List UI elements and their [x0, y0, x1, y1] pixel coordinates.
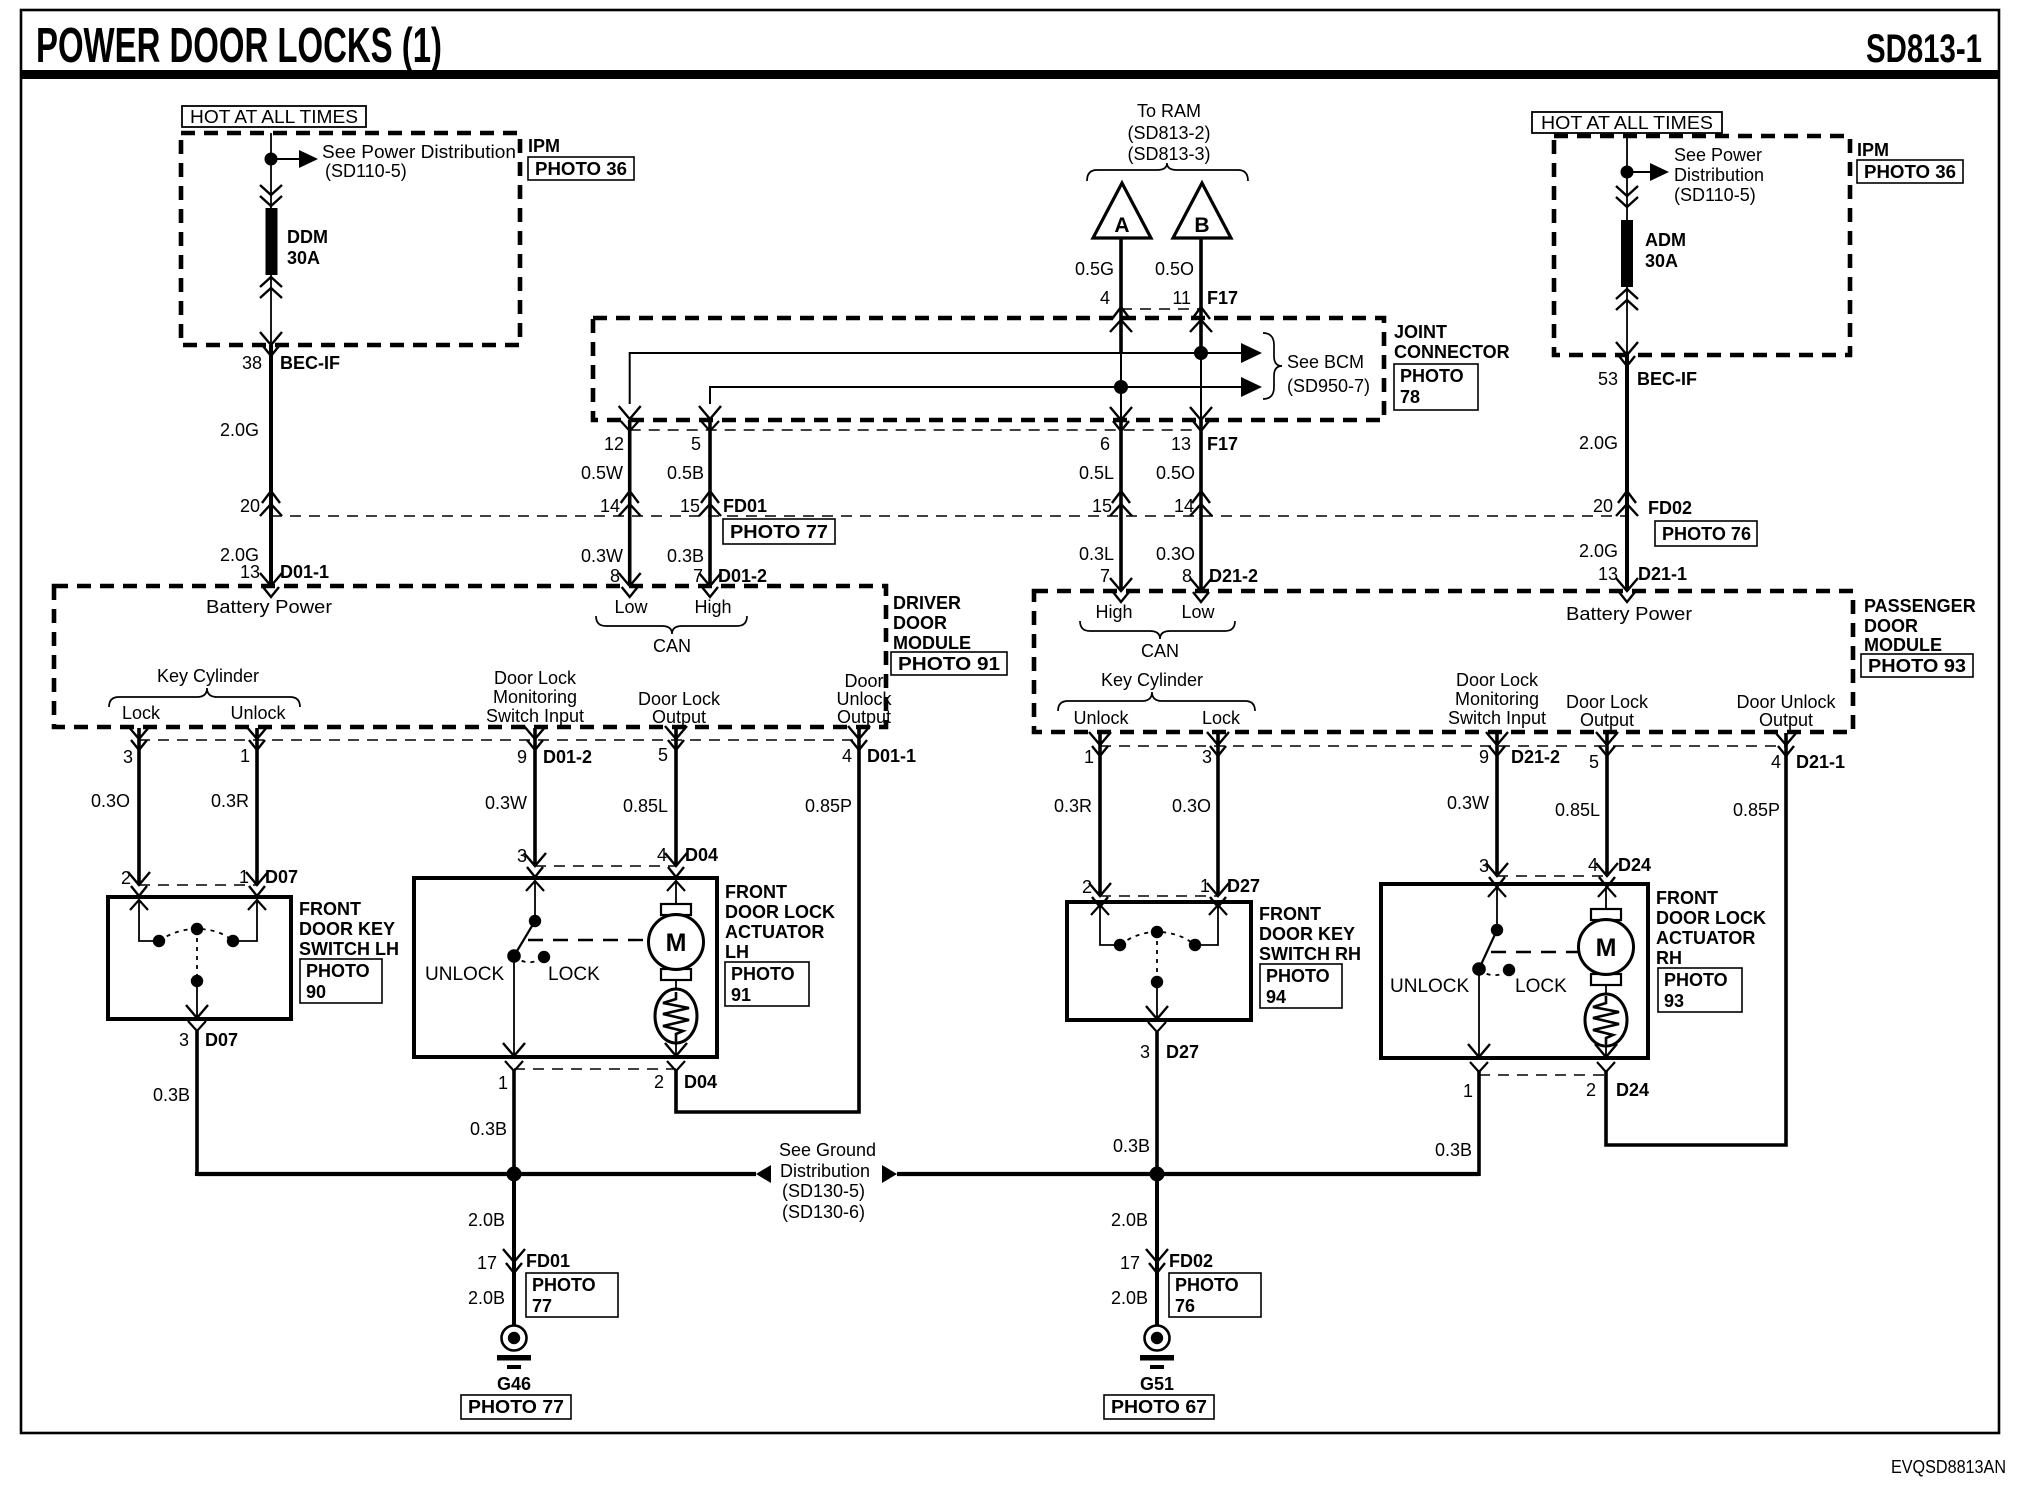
svg-text:D01-1: D01-1 — [280, 562, 329, 582]
svg-text:LOCK: LOCK — [1515, 976, 1567, 997]
svg-text:0.3W: 0.3W — [1447, 793, 1489, 813]
brace CAN (driver) — [596, 616, 747, 634]
svg-text:PHOTO 36: PHOTO 36 — [1864, 162, 1956, 182]
key switch RH: pin 1 lead — [1195, 905, 1218, 945]
label PHOTO 36 (right IPM) — [1857, 160, 1963, 183]
svg-text:Lock: Lock — [1202, 708, 1241, 728]
svg-text:POWER DOOR LOCKS (1): POWER DOOR LOCKS (1) — [36, 19, 442, 73]
label DRIVER DOOR MODULE — [893, 593, 971, 653]
actuator RH switch pivot contact — [1491, 924, 1503, 936]
svg-text:RH: RH — [1656, 948, 1682, 968]
svg-text:76: 76 — [1175, 1296, 1195, 1316]
arrow from thermal element to box edge (RH) — [1605, 1044, 1607, 1056]
label PHOTO 76 (FD02) — [1655, 521, 1757, 546]
label PHOTO 90 — [300, 959, 382, 1003]
svg-text:BEC-IF: BEC-IF — [280, 353, 340, 373]
chevron below joint box (pin 6) — [1110, 407, 1132, 431]
svg-text:SD813-1: SD813-1 — [1866, 27, 1982, 71]
svg-text:Low: Low — [1181, 602, 1215, 622]
connector line D04 out (dashed) — [514, 1068, 676, 1070]
svg-text:Door Lock: Door Lock — [638, 689, 721, 709]
svg-text:11: 11 — [1172, 288, 1191, 308]
svg-text:ACTUATOR: ACTUATOR — [725, 922, 824, 942]
svg-text:See Power Distribution: See Power Distribution — [322, 142, 516, 162]
svg-text:DOOR KEY: DOOR KEY — [299, 919, 395, 939]
svg-text:See Power: See Power — [1674, 145, 1762, 165]
svg-text:A: A — [1114, 214, 1129, 237]
connector chevrons FD02 pin 15 — [1110, 491, 1132, 516]
driver door module dashed box — [54, 586, 886, 727]
right IPM fuse box: HOT AT ALL TIMES label — [1532, 112, 1722, 133]
chevron inside actuator pin 3 — [526, 881, 544, 891]
svg-text:0.85L: 0.85L — [1555, 800, 1600, 820]
svg-text:0.5O: 0.5O — [1156, 463, 1195, 483]
off-page connector triangle A — [1093, 183, 1151, 238]
svg-text:0.5G: 0.5G — [1075, 259, 1114, 279]
connector chevrons FD01 pin 15 — [699, 491, 721, 516]
exit chevron D04 pin 2 — [667, 1061, 685, 1071]
svg-text:17: 17 — [1120, 1253, 1140, 1273]
svg-text:0.3O: 0.3O — [91, 791, 130, 811]
svg-text:IPM: IPM — [528, 136, 560, 156]
exit chevron passenger module pin 4 — [1775, 732, 1797, 756]
svg-text:0.5L: 0.5L — [1079, 463, 1114, 483]
connector line F17 (pins 4/11) — [1121, 308, 1201, 310]
svg-text:DOOR: DOOR — [893, 613, 947, 633]
connector FD01 pin 17 chevron — [503, 1249, 525, 1273]
svg-text:2.0G: 2.0G — [220, 420, 259, 440]
svg-text:3: 3 — [179, 1030, 189, 1050]
arrow down to FD01 pin 5 — [699, 406, 721, 419]
label Door Lock Monitoring Switch Input (driver) — [486, 668, 584, 726]
connector line D21 pins (dashed) — [1100, 745, 1786, 747]
svg-text:D27: D27 — [1227, 876, 1260, 896]
svg-text:PASSENGER: PASSENGER — [1864, 596, 1976, 616]
svg-text:2: 2 — [1082, 877, 1092, 897]
svg-text:(SD813-2): (SD813-2) — [1127, 123, 1210, 143]
junction node G46 drop — [507, 1167, 522, 1182]
svg-text:3: 3 — [1202, 747, 1212, 767]
svg-text:Monitoring: Monitoring — [493, 687, 577, 707]
svg-text:UNLOCK: UNLOCK — [1390, 976, 1470, 997]
svg-text:0.3R: 0.3R — [211, 791, 249, 811]
motor M (actuator RH) — [1579, 920, 1634, 975]
wire 0.3B (actuator RH pin 1 to ground bus) — [1477, 1070, 1481, 1176]
svg-text:Output: Output — [1759, 710, 1813, 730]
chevron inside actuator RH pin 4 — [1598, 887, 1616, 897]
entry chevron D01-2 pin 7 — [699, 573, 721, 597]
svg-text:D01-1: D01-1 — [867, 746, 916, 766]
wire 0.5G (triangle A down to joint connector) — [1119, 238, 1123, 353]
wire: tap to arrow — [271, 158, 301, 160]
exit chevron D04 pin 1 — [505, 1061, 523, 1071]
svg-text:2.0B: 2.0B — [468, 1210, 505, 1230]
connector FD02 pin 17 chevron — [1146, 1249, 1168, 1273]
connector line D04 in (dashed) — [535, 865, 676, 867]
svg-text:0.3L: 0.3L — [1079, 544, 1114, 564]
svg-text:(SD130-5): (SD130-5) — [782, 1181, 865, 1201]
svg-text:Monitoring: Monitoring — [1455, 689, 1539, 709]
ground bus wire (right segment) — [897, 1172, 1479, 1176]
connector line D01 pins (dashed) — [139, 739, 859, 741]
wire A through joint connector — [1120, 353, 1122, 420]
actuator RH switch feed wire — [1496, 887, 1498, 930]
svg-text:13: 13 — [240, 562, 260, 582]
connector chevrons above fuse DDM — [260, 185, 282, 206]
svg-text:D01-2: D01-2 — [718, 566, 767, 586]
label FRONT DOOR KEY SWITCH LH — [299, 899, 399, 959]
svg-text:CONNECTOR: CONNECTOR — [1394, 342, 1510, 362]
svg-text:2: 2 — [654, 1072, 664, 1092]
svg-text:SWITCH LH: SWITCH LH — [299, 939, 399, 959]
wire: joint connector lower bus to BCM — [710, 387, 1252, 404]
off-page connector triangle B — [1173, 183, 1231, 238]
svg-text:Door Unlock: Door Unlock — [1736, 692, 1836, 712]
connector chevrons below fuse ADM — [1616, 289, 1638, 310]
passenger door module dashed box — [1034, 591, 1853, 732]
connector FD02 pin 20 chevrons — [1616, 491, 1638, 516]
entry chevron D27 pin 2 — [1089, 883, 1111, 907]
label FRONT DOOR KEY SWITCH RH — [1259, 904, 1361, 964]
exit chevron D24 pin 2 — [1597, 1062, 1615, 1072]
svg-text:High: High — [694, 597, 731, 617]
svg-text:ACTUATOR: ACTUATOR — [1656, 928, 1755, 948]
svg-text:1: 1 — [240, 746, 250, 766]
svg-text:Output: Output — [652, 707, 706, 727]
actuator LH switch blade — [514, 921, 535, 956]
svg-text:5: 5 — [1589, 752, 1599, 772]
entry chevron D07 pin 2 — [128, 872, 150, 896]
exit chevron driver module pin 5 — [665, 726, 687, 750]
label PHOTO 91 (actuator LH) — [725, 962, 809, 1006]
svg-text:Unlock: Unlock — [230, 703, 286, 723]
svg-text:78: 78 — [1400, 387, 1420, 407]
actuator LH switch output wire with arrow — [513, 956, 515, 1055]
wire 0.85L (x=676) — [674, 728, 678, 866]
brace Key Cylinder (driver) — [109, 688, 300, 707]
wire: joint connector upper bus to BCM — [630, 353, 1252, 404]
key switch RH common (dotted) — [1156, 932, 1158, 982]
arrow to power distribution (right) — [1650, 163, 1669, 181]
entry chevron D04 pin 4 — [665, 853, 687, 877]
svg-text:PHOTO: PHOTO — [1175, 1275, 1239, 1295]
actuator RH switch blade — [1479, 930, 1497, 969]
motor M terminal (top, RH) — [1591, 909, 1621, 920]
label PASSENGER DOOR MODULE — [1864, 596, 1976, 655]
label Door Lock Output (driver) — [638, 689, 721, 727]
brace Key Cylinder (passenger) — [1058, 692, 1255, 711]
wire 2.0B (G46 drop) — [512, 1174, 516, 1326]
svg-text:D04: D04 — [684, 1072, 717, 1092]
svg-text:1: 1 — [1084, 747, 1094, 767]
label FRONT DOOR LOCK ACTUATOR LH — [725, 882, 835, 962]
svg-text:1: 1 — [1463, 1081, 1473, 1101]
svg-text:LOCK: LOCK — [548, 964, 600, 985]
connector line D24 out (dashed) — [1479, 1074, 1606, 1076]
svg-text:PHOTO: PHOTO — [1664, 970, 1728, 990]
svg-text:0.85L: 0.85L — [623, 796, 668, 816]
connector line (pins 12/5/6/13) — [630, 429, 1201, 431]
connector BEC-IF exit chevron (pin 53) — [1616, 342, 1638, 366]
svg-text:To RAM: To RAM — [1137, 101, 1201, 121]
svg-text:FD02: FD02 — [1648, 498, 1692, 518]
svg-text:2.0G: 2.0G — [1579, 433, 1618, 453]
connector FD01 pin 20 chevrons — [260, 491, 282, 516]
actuator RH switch output wire with arrow — [1478, 969, 1480, 1056]
svg-text:2.0B: 2.0B — [1111, 1210, 1148, 1230]
wire: right IPM feed (vertical, x=1627) — [1626, 136, 1628, 355]
key switch LH contacts — [153, 935, 165, 947]
svg-text:MODULE: MODULE — [1864, 635, 1942, 655]
svg-text:Unlock: Unlock — [1073, 708, 1129, 728]
wire 2.0G (x=1627, BEC-IF to D21-1) — [1625, 355, 1629, 591]
wire 0.3B (x=1157 to ground bus) — [1155, 1032, 1159, 1176]
fuse ADM 30A — [1621, 220, 1633, 287]
svg-text:13: 13 — [1598, 564, 1618, 584]
key switch RH wiper arc (dashed) — [1120, 932, 1195, 945]
entry chevron D27 pin 1 — [1207, 883, 1229, 907]
actuator LH linkage to motor (dashed) — [528, 939, 646, 941]
svg-text:D24: D24 — [1616, 1080, 1649, 1100]
svg-text:FD01: FD01 — [723, 496, 767, 516]
wire 0.3B (x=197 to ground bus) — [195, 1031, 199, 1176]
svg-text:D01-2: D01-2 — [543, 747, 592, 767]
svg-text:FRONT: FRONT — [299, 899, 361, 919]
svg-text:DOOR: DOOR — [1864, 616, 1918, 636]
svg-text:2: 2 — [121, 868, 131, 888]
chevron inside actuator RH pin 3 — [1488, 887, 1506, 897]
svg-text:15: 15 — [1092, 496, 1112, 516]
svg-text:PHOTO 77: PHOTO 77 — [730, 522, 828, 542]
svg-text:DOOR LOCK: DOOR LOCK — [725, 902, 835, 922]
svg-text:(SD950-7): (SD950-7) — [1287, 376, 1370, 396]
wire 0.3R (x=257) — [255, 728, 259, 885]
actuator RH linkage to motor (dashed) — [1491, 951, 1578, 953]
svg-text:2: 2 — [1586, 1080, 1596, 1100]
svg-text:D07: D07 — [205, 1030, 238, 1050]
wire 0.3R (x=1100) — [1098, 733, 1102, 896]
exit chevron driver module pin 4 — [848, 726, 870, 750]
connector chevrons F17 pin 11 — [1190, 307, 1212, 332]
ground bus wire (left segment) — [197, 1172, 756, 1176]
motor M (actuator LH) — [649, 915, 704, 970]
motor M terminal (bottom, RH) — [1591, 974, 1621, 985]
actuator RH contact arc (dotted) — [1479, 969, 1509, 975]
actuator LH switch pivot contact — [529, 915, 541, 927]
svg-text:D21-2: D21-2 — [1209, 566, 1258, 586]
svg-text:30A: 30A — [1645, 251, 1678, 271]
svg-text:HOT AT ALL TIMES: HOT AT ALL TIMES — [1541, 113, 1713, 133]
wire: tap to arrow (right) — [1627, 171, 1652, 173]
wire 0.5L (x=1121 down to passenger module) — [1119, 420, 1123, 591]
svg-text:4: 4 — [842, 746, 852, 766]
svg-text:Output: Output — [1580, 710, 1634, 730]
thermal protector (zigzag in ellipse) — [655, 989, 697, 1043]
wire B through joint connector — [1200, 353, 1202, 420]
thermal protector (zigzag in ellipse, RH) — [1585, 994, 1627, 1046]
svg-text:Switch Input: Switch Input — [1448, 708, 1546, 728]
exit chevron driver module pin 3 (Lock) — [128, 726, 150, 750]
label PHOTO 93 (actuator RH) — [1658, 968, 1742, 1012]
arrow from thermal element to box edge — [675, 1041, 677, 1055]
svg-text:Output: Output — [837, 707, 891, 727]
entry chevron D01-2 pin 8 — [619, 573, 641, 597]
svg-text:6: 6 — [1100, 434, 1110, 454]
svg-text:Battery Power: Battery Power — [206, 597, 332, 617]
svg-text:CAN: CAN — [1141, 641, 1179, 661]
connector D01-1 pin 13 entry chevron — [260, 573, 282, 597]
svg-text:0.5O: 0.5O — [1155, 259, 1194, 279]
chevron inside actuator pin 4 — [667, 881, 685, 891]
svg-text:(SD110-5): (SD110-5) — [1674, 185, 1756, 205]
svg-text:0.3B: 0.3B — [1435, 1140, 1472, 1160]
chevron below joint box (pin 12) — [621, 421, 639, 431]
svg-text:Switch Input: Switch Input — [486, 706, 584, 726]
svg-text:PHOTO 36: PHOTO 36 — [535, 159, 627, 179]
title separator bar — [21, 70, 1999, 79]
actuator LH contact arc (dotted) — [514, 956, 544, 962]
svg-text:F17: F17 — [1207, 288, 1238, 308]
svg-text:B: B — [1194, 214, 1209, 237]
ground G46 — [497, 1326, 531, 1370]
svg-text:0.5B: 0.5B — [667, 463, 704, 483]
label Door Unlock Output (driver) — [836, 671, 892, 727]
svg-text:JOINT: JOINT — [1394, 322, 1447, 342]
key switch LH: pin 1 lead — [233, 900, 257, 941]
chevron below joint box (pin 5) — [701, 421, 719, 431]
entry chevron D24 pin 4 — [1596, 863, 1618, 887]
actuator RH unlock contact — [1472, 962, 1486, 976]
svg-text:D24: D24 — [1618, 855, 1651, 875]
connector line D07 (dashed) — [139, 884, 257, 886]
exit chevron driver module pin 9 — [524, 726, 546, 750]
svg-text:Key Cylinder: Key Cylinder — [1101, 670, 1203, 690]
svg-text:(SD813-3): (SD813-3) — [1127, 144, 1210, 164]
front door lock actuator RH box — [1381, 884, 1648, 1058]
svg-text:D27: D27 — [1166, 1042, 1199, 1062]
wire 0.3O (x=139) — [137, 728, 141, 885]
wire 0.85P (x=859 down and across to actuator pin 2) — [676, 728, 859, 1112]
entry chevron D21-2 pin 8 — [1190, 578, 1212, 602]
svg-text:20: 20 — [240, 496, 260, 516]
chevron inside key switch RH pin 2 — [1091, 905, 1109, 915]
svg-text:0.3B: 0.3B — [470, 1119, 507, 1139]
svg-text:14: 14 — [600, 496, 620, 516]
svg-text:Battery Power: Battery Power — [1566, 604, 1692, 624]
ground bus corner at key switch LH output — [195, 1172, 199, 1176]
chevron inside key switch box pin 1 — [248, 900, 266, 910]
front door lock actuator LH box — [414, 878, 717, 1057]
svg-text:77: 77 — [532, 1296, 552, 1316]
wire 2.0B (G51 drop) — [1155, 1174, 1159, 1326]
svg-text:93: 93 — [1664, 991, 1684, 1011]
entry chevron D21-2 pin 7 — [1110, 578, 1132, 602]
actuator LH lock contact — [538, 951, 550, 963]
svg-text:D04: D04 — [685, 845, 718, 865]
svg-text:0.3O: 0.3O — [1172, 796, 1211, 816]
arrow to power distribution — [299, 150, 318, 168]
svg-text:94: 94 — [1266, 987, 1286, 1007]
svg-text:Distribution: Distribution — [780, 1161, 870, 1181]
svg-text:53: 53 — [1598, 369, 1618, 389]
arrow down to FD01 pin 12 — [619, 406, 641, 419]
label Door Lock Monitoring Switch Input (passenger) — [1448, 670, 1546, 728]
key switch RH: pin 2 lead — [1100, 905, 1120, 945]
wire 0.85L (x=1607) — [1605, 733, 1609, 876]
wire 0.5O (x=1201 down to passenger module) — [1199, 420, 1203, 591]
wire 0.85P (x=1786 down and across to actuator RH pin 2) — [1606, 733, 1786, 1145]
wire motor to thermal element — [675, 980, 677, 990]
svg-text:Key Cylinder: Key Cylinder — [157, 666, 259, 686]
svg-text:ADM: ADM — [1645, 230, 1686, 250]
wire motor to thermal element (RH) — [1605, 985, 1607, 994]
label FRONT DOOR LOCK ACTUATOR RH — [1656, 888, 1766, 968]
svg-text:PHOTO: PHOTO — [1400, 366, 1464, 386]
svg-text:DDM: DDM — [287, 227, 328, 247]
wire 0.3O (x=1218) — [1216, 733, 1220, 896]
chevron inside key switch RH pin 1 — [1209, 905, 1227, 915]
ground G51 — [1140, 1326, 1174, 1370]
svg-text:(SD130-6): (SD130-6) — [782, 1202, 865, 1222]
svg-text:DOOR LOCK: DOOR LOCK — [1656, 908, 1766, 928]
label PHOTO 76 (FD02 bottom) — [1169, 1273, 1261, 1317]
front door key switch LH box — [108, 897, 291, 1019]
svg-text:2.0G: 2.0G — [1579, 541, 1618, 561]
connector chevrons above fuse ADM — [1616, 186, 1638, 207]
svg-text:0.85P: 0.85P — [805, 796, 852, 816]
wire to motor (RH) — [1605, 887, 1607, 909]
wire 0.5B (x=710 down to driver module) — [708, 420, 712, 586]
exit chevron passenger module pin 9 — [1486, 732, 1508, 756]
key switch RH output wire with arrow — [1156, 982, 1158, 1018]
connector chevrons FD01 pin 14 — [619, 491, 641, 516]
svg-text:8: 8 — [610, 566, 620, 586]
svg-text:CAN: CAN — [653, 636, 691, 656]
svg-text:PHOTO: PHOTO — [306, 961, 370, 981]
svg-text:0.3B: 0.3B — [153, 1085, 190, 1105]
actuator LH unlock contact — [507, 949, 521, 963]
connector chevrons FD02 pin 14 — [1190, 491, 1212, 516]
actuator LH switch feed wire — [534, 881, 536, 921]
svg-text:PHOTO: PHOTO — [731, 964, 795, 984]
svg-text:5: 5 — [691, 434, 701, 454]
svg-text:Door Lock: Door Lock — [1456, 670, 1539, 690]
wire 0.5W (x=629.7 down to driver module) — [628, 420, 632, 586]
svg-text:SWITCH RH: SWITCH RH — [1259, 944, 1361, 964]
svg-text:Unlock: Unlock — [836, 689, 892, 709]
svg-text:0.3W: 0.3W — [581, 546, 623, 566]
svg-text:MODULE: MODULE — [893, 633, 971, 653]
junction node G51 drop — [1150, 1167, 1165, 1182]
joint connector dashed box — [593, 318, 1384, 420]
svg-text:9: 9 — [517, 747, 527, 767]
svg-text:2.0B: 2.0B — [468, 1288, 505, 1308]
svg-text:0.3O: 0.3O — [1156, 544, 1195, 564]
svg-text:D21-1: D21-1 — [1638, 564, 1687, 584]
svg-text:8: 8 — [1182, 566, 1192, 586]
svg-text:17: 17 — [477, 1253, 497, 1273]
svg-text:UNLOCK: UNLOCK — [425, 964, 505, 985]
svg-text:M: M — [666, 929, 687, 957]
junction node on wire B (upper bus) — [1194, 346, 1208, 360]
svg-text:5: 5 — [658, 745, 668, 765]
wire: left IPM feed (vertical, x=271) — [270, 133, 272, 345]
svg-text:EVQSD8813AN: EVQSD8813AN — [1891, 1457, 2006, 1477]
svg-text:DOOR KEY: DOOR KEY — [1259, 924, 1355, 944]
label PHOTO 36 (left IPM) — [528, 157, 634, 180]
svg-text:PHOTO 67: PHOTO 67 — [1111, 1397, 1207, 1417]
svg-text:0.5W: 0.5W — [581, 463, 623, 483]
